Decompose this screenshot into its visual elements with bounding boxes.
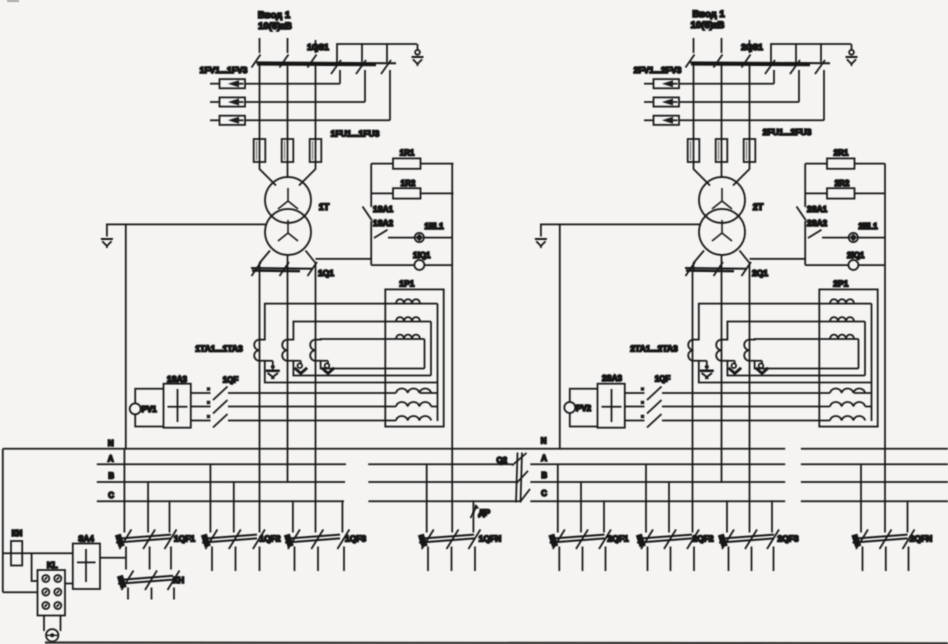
surge arrester 1FV3 [210,116,245,125]
svg-text:1QS1: 1QS1 [307,42,329,52]
resistor 2R1 [827,158,855,168]
1QS1 earthing blade 2 [356,60,366,74]
switch 1SA2 blade [374,230,388,238]
indicator 2IQ1 [848,260,858,270]
2QS1 blade pole 3 [742,55,751,68]
voltmeter PV2 [564,402,575,413]
wire phase A upper [693,63,695,139]
wire measuring line 3 left [191,420,211,422]
wire CT3 secondary loop [316,339,425,369]
scan artifact top-left edge [7,0,19,2]
lamp 2EL1 [849,233,858,242]
meter voltage coil 1 [830,388,865,393]
wire 1QFN outgoing 3 [474,547,476,572]
contactor КН [117,575,173,589]
current transformer 1TA1 [254,340,259,361]
svg-text:10(6)кВ: 10(6)кВ [691,20,725,31]
wire 2QF1 pole 1 drop [557,464,559,532]
bus B section 2 [530,481,948,483]
wire lamp to right rail [858,237,885,239]
wire incoming phase A stub [693,38,695,53]
svg-text:B: B [541,471,547,480]
svg-text:1Q1: 1Q1 [318,268,334,278]
wire tap to lamp circuit [316,258,372,260]
wire neutral branch to N bus [125,224,127,448]
2Q1 blade pole 3 [742,262,752,276]
transformer 2T primary winding [699,177,745,223]
current transformer 1TA3 [310,340,315,361]
wire CT2 secondary loop [722,322,866,376]
2Q1 blade pole 1 [686,262,696,276]
wire 1QFN pole 3 drop [472,501,474,532]
svg-text:N: N [541,437,547,446]
surge arrester 1FV2 [210,97,245,106]
wire measuring line 2 right [228,406,396,408]
wire to KL row 2 [3,591,38,593]
meter current coil 3 [396,335,420,339]
svg-text:КИ: КИ [12,529,23,538]
wire 2QF1 pole 3 drop [603,501,605,532]
resistor 1R2 [393,188,421,198]
wire 2QF3 pole 1 drop [726,501,728,532]
surge arrester 2FV3 [644,116,679,125]
svg-text:Q2: Q2 [496,456,507,465]
transformer 1T secondary winding [265,209,311,255]
scan artifact bottom edge [45,641,948,644]
svg-text:1R1: 1R1 [400,149,415,158]
wire 1QF2 outgoing 2 [235,547,237,572]
svg-text:1SA3: 1SA3 [167,375,188,384]
wire to resistor 1R2 [371,192,393,194]
wire fuse 2 to transformer [721,162,723,178]
wire 1QF3 outgoing 1 [294,547,296,572]
wire bottom branch left [371,264,414,266]
wire transformer neutral to ground [107,224,266,236]
svg-text:1SA1: 1SA1 [373,205,394,214]
Q2 blade A [512,453,527,466]
ground CT3 secondary [321,360,328,362]
1Q1 blade pole 1 [252,262,262,276]
1QS1 blade pole 2 [280,55,289,68]
wire КН outgoing 3 [173,588,175,600]
disconnector 2QS1 linkage bar [690,61,830,64]
svg-text:2QF2: 2QF2 [692,534,714,544]
ground CT1 secondary [265,360,273,362]
current transformer 2TA2 [716,340,721,361]
Q2 blade C [520,489,530,502]
2QS1 earthing switch top bar [771,44,851,62]
terminal block KL [38,570,66,616]
svg-text:2QF1: 2QF1 [607,534,629,544]
feeder breaker 2QF2 [636,534,692,548]
bus N section 1+2 [3,448,948,450]
wire 2QF3 outgoing 3 [773,547,775,572]
wire transformer to 1Q1 pole 3 [306,251,316,273]
wire to KL row 1 [32,553,38,581]
KL terminal 3 [42,589,49,596]
surge arrester 2FV1 [644,79,679,88]
wire 1QF3 outgoing 2 [317,547,319,572]
2QS1 blade pole 2 [714,55,723,68]
svg-text:2FV1...2FV3: 2FV1...2FV3 [634,65,682,75]
svg-text:1QF2: 1QF2 [259,534,281,544]
wire lamp circuit left rail [804,164,806,266]
wire measuring line 3 right [228,420,396,422]
svg-text:N: N [108,439,114,448]
wire 2QF2 pole 1 drop [645,464,647,532]
svg-text:1EL1: 1EL1 [424,222,444,231]
breaker 2Q1 linkage bar [685,267,747,270]
wire right rail down to N bus and 2QFN pole 2 [884,164,886,533]
wire 1QF1 outgoing 2 [149,547,151,570]
svg-text:PV2: PV2 [576,404,592,413]
wire 1QF3 outgoing 3 [343,547,345,572]
meter current coil 2 [830,317,854,321]
wire transformer to 2Q1 pole 1 [694,251,705,273]
KL stem [44,616,61,632]
wire tap to lamp circuit [750,258,806,260]
ground of 2QS1 earthing switch [846,44,858,66]
wire phase A upper [259,63,261,139]
1Q1 blade pole 3 [308,262,318,276]
svg-text:2Р1: 2Р1 [833,279,848,289]
bus A section 2 [530,463,948,465]
svg-text:1R2: 1R2 [401,179,416,188]
wire SA4 to feeder [100,557,126,559]
wire arrester row 3 [245,119,390,121]
wire phase C upper [315,63,317,139]
wire to resistor 2R2 [805,192,827,194]
breaker 2QF blade 1 [641,387,662,401]
fuse 1FU2 [282,138,294,163]
svg-text:1Р1: 1Р1 [399,279,414,289]
wire incoming phase C stub [315,40,317,53]
breaker 2QF blade 2 [641,400,662,414]
wire lamp to right rail [424,237,452,239]
svg-text:KL: KL [47,561,58,570]
wire 1QF2 pole 1 drop [209,464,211,532]
svg-text:2ТА1...2ТА3: 2ТА1...2ТА3 [630,344,678,354]
wire 1QF2 outgoing 3 [259,547,261,572]
switch 1SA3 [164,384,191,428]
wire fuse 2 to transformer [287,162,289,178]
wire to КИ [3,552,73,554]
wire 1QF2 outgoing 1 [211,547,213,572]
wire 2R1 to right rail [855,163,886,165]
wire incoming phase C stub [749,40,751,53]
current transformer 2TA3 [744,340,749,361]
2QS1 earthing blade 1 [765,60,775,74]
breaker 1QF blade 3 [207,414,228,428]
KL terminal 4 [54,589,61,596]
wire measuring line 1 left [191,392,211,394]
wire phase B upper [721,63,723,139]
feeder breaker 1QF2 [201,534,257,548]
wire bottom branch left [805,264,848,266]
fuse 1FU1 [254,138,266,163]
meter voltage coil 3 [830,416,865,421]
meter voltage coil 3 [396,416,431,421]
svg-text:C: C [541,489,547,498]
svg-text:2R1: 2R1 [834,149,849,158]
2QS1 earthing blade 2 [790,60,800,74]
voltmeter PV1 [130,403,141,414]
wire phase 2 drop to bus B [287,272,289,482]
fuse 2FU3 [744,138,756,163]
svg-text:1SA2: 1SA2 [373,219,394,228]
wire earthing pole 1 drop [339,70,341,84]
2Q1 blade pole 2 [714,262,724,276]
wire 2QF1 outgoing 1 [558,547,560,572]
wire arrester row 1 [679,83,774,85]
wire 1QF3 pole 1 drop [292,501,294,532]
wire 1QF1 pole 3 drop [169,501,171,532]
svg-text:2R2: 2R2 [835,179,850,188]
1QS1 earthing blade 1 [331,60,341,74]
breaker 2QF blade 3 [641,414,662,428]
resistor 2R2 [827,188,855,198]
feeder breaker 1QFN [418,534,474,548]
wire PV1 bracket [135,389,163,427]
meter current coil 1 [396,299,420,303]
wire phase B upper [287,63,289,139]
wire earthing pole 3 drop [389,70,391,120]
svg-text:C: C [108,491,114,500]
wire measuring line 2 left [191,406,211,408]
svg-text:2IQ1: 2IQ1 [847,251,865,260]
fuse 2FU1 [688,138,700,163]
svg-text:SA4: SA4 [78,535,94,544]
wire 2QF2 pole 2 drop [668,482,670,533]
wire 2QFN outgoing 1 [862,547,864,572]
meter box 1P1 [385,289,443,426]
svg-text:10(6)кВ: 10(6)кВ [258,21,292,32]
feeder breaker 1QF1 [115,534,171,548]
wire bottom branch right [858,264,885,266]
wire right rail down to N bus and 1QFN pole 2 [451,164,453,533]
wire 2QF2 outgoing 2 [670,547,672,572]
wire PV2 bracket [570,389,598,427]
wire CT1 secondary loop [260,304,438,383]
wire lamp branch [388,237,415,239]
svg-text:КН: КН [173,575,184,585]
wire 2QF1 outgoing 3 [605,547,607,572]
wire 1QFN outgoing 1 [427,547,429,572]
annotation arrow ДР [471,506,478,519]
wire right tie vertical [437,304,439,421]
svg-text:A: A [541,454,547,463]
meter current coil 1 [830,299,854,303]
meter voltage coil 2 [396,402,431,407]
wire phase 3 drop to feeders [315,272,317,533]
svg-text:2QFN: 2QFN [910,534,933,544]
svg-text:1FU1...1FU3: 1FU1...1FU3 [331,129,380,139]
fuse 2FU2 [716,138,728,163]
transducer КИ [11,541,22,566]
svg-text:ДР: ДР [479,508,491,518]
wire incoming phase B stub [287,38,289,53]
wire КН outgoing 1 [127,588,129,600]
transformer 2T secondary winding [699,209,745,255]
feeder breaker 1QF3 [284,534,340,548]
1Q1 blade pole 2 [280,262,290,276]
wire arrester row 2 [245,101,365,103]
svg-text:B: B [108,472,114,481]
svg-text:2QF3: 2QF3 [777,534,799,544]
lamp 1EL1 [415,233,424,242]
wire transformer to 2Q1 pole 2 [721,255,723,272]
wire N bus left drop [2,449,4,593]
wire earthing pole 3 drop [823,70,825,120]
wire 1R2 to right rail [421,192,454,194]
wire phase C upper [749,63,751,139]
bus C section 1 [97,500,521,502]
KL terminal 6 [54,602,61,609]
surge arrester 2FV2 [644,97,679,106]
wire measuring line 1 right [228,392,396,394]
wire 2QFN outgoing 2 [885,547,887,572]
svg-text:1FV1...1FV3: 1FV1...1FV3 [200,65,248,75]
wire 2QF1 pole 2 drop [580,482,582,533]
1QS1 earthing switch top bar [337,44,417,62]
ground CT1 secondary [699,360,707,362]
ground at transformer neutral [535,239,547,248]
1QS1 blade pole 3 [308,55,317,68]
wire transformer to 1Q1 pole 1 [260,251,271,273]
svg-text:Ввод 1: Ввод 1 [258,10,291,21]
ground of 1QS1 earthing switch [412,44,424,66]
wire KL to SA4 [65,583,73,585]
wire CT1 secondary loop [694,304,872,383]
bus A section 1 [97,463,513,465]
wire measuring line 2 right [662,406,830,408]
wire earthing pole 2 drop [798,70,800,102]
wire earthing pole 1 drop [773,70,775,84]
KL terminal 5 [42,602,49,609]
wire phase 2 drop to bus B [721,272,723,482]
wire 2QF3 outgoing 1 [728,547,730,572]
2QS1 earthing blade 3 [815,60,825,74]
meter current coil 3 [830,335,854,339]
svg-text:Ввод 1: Ввод 1 [692,9,725,20]
wire fuse 3 to transformer [733,162,750,186]
wire earthing pole 2 drop [364,70,366,102]
wire 2QF3 outgoing 2 [751,547,753,572]
wire phase 3 drop to feeders [749,272,751,533]
bus B section 1 [97,481,517,483]
svg-text:1QF: 1QF [223,376,239,385]
wire 1QF1 outgoing 1 [125,547,127,570]
current transformer 1TA2 [282,340,287,361]
wire right tie vertical [871,304,873,421]
wire arrester row 3 [679,119,824,121]
wire measuring line 3 right [662,420,830,422]
wire transformer neutral to ground [541,224,700,236]
switch 2SA2 blade [808,230,822,238]
svg-text:A: A [108,455,114,464]
svg-text:2Q1: 2Q1 [752,268,768,278]
wire neutral branch to N bus [559,224,561,448]
KL clamp circle [46,629,58,641]
wire 2QF2 outgoing 1 [647,547,649,572]
wire to resistor 1R1 [371,163,393,165]
wire 1QF3 pole 3 drop [341,501,343,532]
wire КН outgoing 2 [151,588,153,600]
wire transformer to 1Q1 pole 2 [287,255,289,272]
wire measuring line 3 left [625,420,645,422]
wire 2QF1 outgoing 2 [582,547,584,572]
ground at transformer neutral [101,239,113,248]
meter voltage coil 1 [396,388,431,393]
wire bottom branch right [424,264,452,266]
svg-text:2EL1: 2EL1 [858,222,878,231]
svg-text:2SA3: 2SA3 [602,374,623,383]
wire lamp circuit left rail [370,164,372,266]
wire to resistor 2R1 [805,163,827,165]
svg-text:2Т: 2Т [753,202,764,212]
feeder breaker 2QF1 [548,534,604,548]
wire 2QFN outgoing 3 [908,547,910,572]
svg-text:1ТА1...1ТА3: 1ТА1...1ТА3 [195,344,243,354]
ground CT2 secondary [293,360,300,362]
Q2 blade B [517,471,529,483]
wire arrester row 1 [245,83,340,85]
current transformer 2TA1 [688,340,693,361]
svg-text:1QF3: 1QF3 [345,534,367,544]
svg-text:2QS1: 2QS1 [741,42,763,52]
wire 2QF2 outgoing 3 [693,547,695,572]
2QS1 blade pole 1 [686,55,695,68]
wire incoming phase B stub [721,38,723,53]
disconnector 1QS1 linkage bar [256,61,396,64]
wire fuse 1 to transformer [694,162,711,186]
svg-text:1QFN: 1QFN [479,534,502,544]
surge arrester 1FV1 [210,79,245,88]
wire measuring line 2 left [625,406,645,408]
switch 2SA3 [598,384,625,428]
wire 1R1 to right rail [421,163,454,165]
transformer 1T primary winding [265,177,311,223]
wire 2QFN pole 3 drop [907,501,909,532]
feeder breaker 2QFN [851,534,907,548]
wire arrester row 2 [679,101,799,103]
wire fuse 1 to transformer [260,162,277,186]
svg-text:PV1: PV1 [142,405,158,414]
breaker 1Q1 linkage bar [251,267,313,270]
1QS1 earthing blade 3 [381,60,391,74]
bus tie switch Q2 bars [516,453,518,503]
1QS1 blade pole 1 [252,55,261,68]
svg-text:2FU1...2FU3: 2FU1...2FU3 [763,127,812,137]
wire CT3 secondary loop [750,339,859,369]
indicator 1IQ1 [414,260,424,270]
wire incoming phase A stub [259,38,261,53]
wire fuse 3 to transformer [299,162,316,186]
wire 2R2 to right rail [855,192,886,194]
wire 1QFN outgoing 2 [451,547,453,572]
switch 1SA1 blade [363,207,373,221]
svg-text:1Т: 1Т [319,202,330,212]
wire measuring line 1 left [625,392,645,394]
wire 1QF1 pole 2 drop [147,482,149,533]
wire measuring line 1 right [662,392,830,394]
switch SA4 [73,544,100,590]
bus C section 2 [530,500,948,502]
wire lamp branch [822,237,849,239]
svg-text:2SA2: 2SA2 [807,219,828,228]
wire phase 1 drop to feeders [259,272,261,533]
svg-text:1IQ1: 1IQ1 [413,251,431,260]
